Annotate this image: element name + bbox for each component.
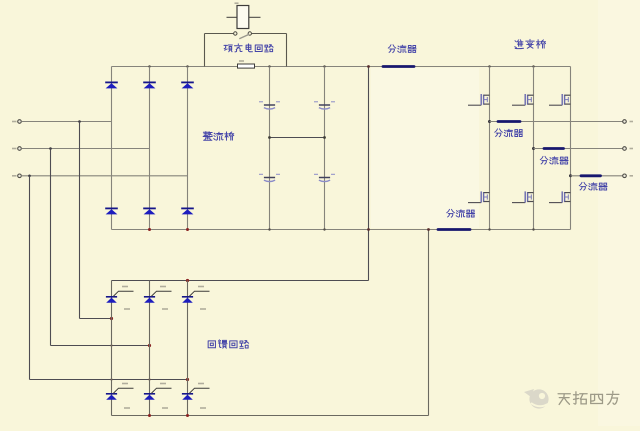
label VT5 designator — [160, 383, 166, 385]
resistor R bus fuse — [238, 64, 255, 68]
terminal U — [623, 120, 627, 124]
node junction inverter col2 top — [532, 65, 534, 67]
node crossing tap L3 col2 — [148, 378, 150, 380]
wire feedback bottom bus — [112, 415, 429, 417]
wire switch right lead — [252, 33, 287, 35]
label L1 — [12, 121, 17, 123]
label shunt U (fen liu qi) — [495, 129, 523, 137]
node junction output U — [488, 120, 491, 123]
thyristor VT5 — [144, 388, 172, 400]
wire DC link vertical — [368, 67, 370, 281]
capacitor C3 — [259, 174, 280, 181]
wire bottom DC- bus — [112, 229, 571, 231]
wire tap L2 horizontal — [51, 345, 150, 347]
wire switch left lead — [205, 33, 234, 35]
label K designator — [235, 2, 239, 4]
wire capacitor column 2 — [324, 67, 326, 230]
diode D6 — [181, 208, 194, 214]
label VT1 designator — [122, 286, 128, 288]
label VT2 designator — [160, 286, 166, 288]
label VT5 ref — [162, 407, 168, 409]
label inverter bridge (ni bian qiao) — [515, 39, 546, 48]
node junction feedback bottom col3 — [186, 414, 189, 417]
shunt top bus bar — [383, 65, 414, 68]
label shunt bottom-left (fen liu qi) — [447, 209, 475, 217]
node junction col2 top bus — [148, 65, 150, 67]
watermark text tian tuo si fang — [558, 391, 619, 404]
wire feedback column 2 — [149, 281, 151, 416]
switch blade — [239, 34, 249, 39]
node junction feedback col1 — [110, 317, 113, 320]
IGBT Q2 — [512, 94, 534, 105]
wire inverter column 3 — [570, 67, 572, 230]
thyristor VT6 — [182, 388, 210, 400]
label shunt top (fen liu qi) — [388, 45, 416, 53]
background band light — [371, 68, 479, 228]
terminal L2 — [18, 147, 22, 151]
label terminal U — [630, 121, 634, 123]
thyristor VT3 — [182, 291, 210, 303]
IGBT Q6 — [549, 191, 571, 202]
node junction feedback return top — [427, 228, 430, 231]
label VT3 ref — [200, 308, 206, 310]
terminal L1 — [18, 120, 22, 124]
IGBT Q5 — [512, 191, 534, 202]
thyristor VT2 — [144, 291, 172, 303]
label terminal V — [630, 148, 634, 150]
label VT4 designator — [122, 383, 128, 385]
terminal W — [623, 174, 627, 178]
label VT6 ref — [200, 407, 206, 409]
node junction feedback col2 — [148, 344, 151, 347]
wire inverter column 2 — [533, 67, 535, 230]
shunt output W bar — [581, 174, 601, 177]
label VT6 designator — [198, 383, 204, 385]
IGBT Q4 — [468, 191, 490, 202]
node junction cap col2 bottom — [323, 228, 325, 230]
label VT2 ref — [162, 308, 168, 310]
node junction inverter col1 top — [488, 65, 490, 67]
capacitor C1 — [259, 102, 280, 109]
diode D2 — [143, 82, 156, 88]
wire feedback return vertical — [428, 230, 430, 416]
capacitor C4 — [314, 174, 335, 181]
label pre-charge circuit (yu chong dian hui lu) — [224, 44, 273, 52]
node junction feedback top bus col3 — [186, 279, 189, 282]
shunt bottom bus bar — [438, 228, 470, 231]
wire feedback top bus — [112, 280, 369, 282]
node tap L2 — [49, 147, 52, 150]
node junction output W — [569, 174, 572, 177]
label VT4 ref — [124, 407, 130, 409]
wire capacitor midpoint link — [270, 137, 325, 139]
node crossing tap L2 col1 — [110, 344, 112, 346]
label feedback circuit (hui kui hui lu) — [208, 340, 249, 348]
node junction feedback bottom col2 — [148, 414, 151, 417]
wire tap L1 vertical — [79, 122, 81, 319]
wire capacitor column 1 — [269, 67, 271, 230]
label VT1 ref — [124, 308, 130, 310]
wire rectifier column 1 — [111, 67, 113, 230]
label VT3 designator — [198, 286, 204, 288]
label L2 — [12, 148, 17, 150]
shunt output V bar — [544, 147, 564, 150]
wire feedback column 1 — [111, 281, 113, 416]
switch contact right — [248, 32, 251, 35]
shunt output U bar — [498, 120, 520, 123]
node junction DC link top — [367, 65, 370, 68]
thyristor VT4 — [106, 388, 134, 400]
wire coil side link left — [227, 16, 238, 18]
wire inverter column 1 — [489, 67, 491, 230]
wire tap L3 horizontal — [30, 379, 188, 381]
wire precharge left vertical — [204, 34, 206, 67]
node junction cap col2 top — [323, 65, 325, 67]
node crossing tap L3 col1 — [110, 378, 112, 380]
wire top DC+ bus — [112, 66, 571, 68]
IGBT Q1 — [468, 94, 490, 105]
capacitor C2 — [314, 102, 335, 109]
node junction cap mid right — [323, 136, 326, 139]
wire phase L3 input — [21, 175, 187, 177]
wire output phase U — [490, 121, 623, 123]
wire output phase W — [571, 175, 623, 177]
node junction feedback col3 — [186, 378, 189, 381]
wire rectifier column 3 — [187, 67, 189, 230]
node junction cap col1 bottom — [268, 228, 270, 230]
wire rectifier column 2 — [149, 67, 151, 230]
wire tap L2 vertical — [50, 149, 52, 346]
node junction inverter col1 bottom — [488, 228, 490, 230]
diode D1 — [105, 82, 118, 88]
wire phase L2 input — [21, 148, 149, 150]
node junction cap col1 top — [268, 65, 270, 67]
node junction inverter col2 bottom — [532, 228, 534, 230]
wire feedback column 3 — [187, 281, 189, 416]
wire output phase V — [534, 148, 623, 150]
node junction col2 bottom bus — [148, 228, 151, 231]
watermark logo icon — [524, 389, 549, 409]
wire coil side link right — [249, 16, 261, 18]
switch contact left — [234, 32, 237, 35]
label rectifier bridge (zheng liu qiao) — [203, 132, 234, 141]
relay coil K — [237, 6, 249, 29]
wire phase L1 input — [21, 121, 111, 123]
node junction col3 top bus — [186, 65, 188, 67]
diode D5 — [143, 208, 156, 214]
label shunt V (fen liu qi) — [540, 156, 568, 164]
terminal V — [623, 147, 627, 151]
terminal L3 — [18, 174, 22, 178]
label shunt W (fen liu qi) — [579, 182, 607, 190]
IGBT Q3 — [549, 94, 571, 105]
node junction output V — [532, 147, 535, 150]
wire precharge right vertical — [286, 34, 288, 67]
label R designator — [239, 60, 244, 62]
node junction DC link bottom bus — [367, 228, 370, 231]
wire tap L1 horizontal — [80, 318, 112, 320]
label L3 — [12, 175, 17, 177]
node junction col3 bottom bus — [186, 228, 189, 231]
label terminal W — [630, 175, 634, 177]
diode D3 — [181, 82, 194, 88]
node junction cap mid left — [268, 136, 271, 139]
diode D4 — [105, 208, 118, 214]
node tap L1 — [78, 120, 81, 123]
wire tap L3 vertical — [29, 176, 31, 380]
node tap L3 — [28, 175, 31, 178]
thyristor VT1 — [106, 291, 134, 303]
